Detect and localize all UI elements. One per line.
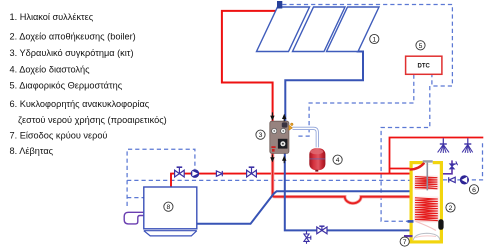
tank faint coil tail <box>416 222 436 231</box>
svg-text:6. Κυκλοφορητής ανακυκλοφορίας: 6. Κυκλοφορητής ανακυκλοφορίας <box>10 99 150 109</box>
flow arrow up below kit <box>282 156 286 164</box>
wire: dashed long horizontal to tank <box>127 179 409 181</box>
pipe: blue cold water line kit side to tank <box>285 153 414 230</box>
svg-text:3. Υδραυλικό συγκρότημα (κιτ): 3. Υδραυλικό συγκρότημα (κιτ) <box>10 48 134 58</box>
legend text <box>10 12 167 156</box>
boiler flue hook <box>124 212 143 224</box>
pipe: red hot water riser and shower line <box>390 138 484 175</box>
pipe: blue boiler return tank to boiler <box>197 191 414 224</box>
wire: dashed sensor wire collector to DTC <box>282 5 452 87</box>
svg-text:5. Διαφορικός Θερμοστάτης: 5. Διαφορικός Θερμοστάτης <box>10 81 123 91</box>
pump P1 boiler circulator <box>191 169 200 178</box>
collector temperature sensor <box>277 1 282 9</box>
pipe: red hot outlet stub into tank <box>390 168 413 170</box>
solar collector panel 2 <box>293 7 346 52</box>
pipe: red boiler supply to tank <box>171 174 415 187</box>
solar collector panel 1 <box>257 7 310 52</box>
wire: dashed recirculation line right of tank <box>443 141 483 180</box>
shower head 1 <box>438 138 449 153</box>
tank bottom inlet stub <box>404 235 413 237</box>
tank sensor stub <box>408 220 414 223</box>
expansion vessel C4 <box>309 148 325 171</box>
node 4 label <box>333 155 342 164</box>
tank upper coil backdrop <box>414 175 438 190</box>
svg-text:4. Δοχείο διαστολής: 4. Δοχείο διαστολής <box>10 64 91 74</box>
tank U2 body <box>410 161 444 244</box>
node 1 label <box>370 34 379 43</box>
flow arrow down into kit top <box>270 112 274 120</box>
svg-text:7: 7 <box>403 239 407 246</box>
hydraulic kit U3 body <box>270 121 289 153</box>
valve V4 gate valve on cold water line <box>317 226 327 234</box>
valve V1 gate valve on boiler supply <box>175 167 185 177</box>
svg-text:1. Ηλιακοί συλλέκτες: 1. Ηλιακοί συλλέκτες <box>10 12 94 22</box>
valve V3 gate valve on boiler supply <box>247 167 257 177</box>
svg-text:8. Λέβητας: 8. Λέβητας <box>10 146 54 156</box>
svg-text:2. Δοχείο αποθήκευσης (boiler): 2. Δοχείο αποθήκευσης (boiler) <box>10 31 136 41</box>
valve V5 drain valve below cold line <box>304 230 311 243</box>
wire: dashed rect left loop to boiler and pump <box>127 149 195 206</box>
tank upper coil <box>415 177 437 189</box>
tank dip tube hot outlet <box>410 163 425 170</box>
tank bottom dome <box>413 233 440 240</box>
node 3 label <box>256 130 265 139</box>
svg-text:1: 1 <box>372 37 376 44</box>
pump P2 recirculation pump 6 <box>460 175 469 184</box>
tank electric element <box>438 219 443 230</box>
tank lower coil <box>415 198 438 221</box>
tank top fitting <box>423 160 433 190</box>
shower head 2 <box>462 138 473 153</box>
node 2 label <box>446 203 455 212</box>
pipe: safety pipe kit to expansion vessel <box>293 128 318 147</box>
svg-text:5: 5 <box>419 43 423 50</box>
pipe: red solar supply collector to kit <box>222 11 277 122</box>
pipe: blue solar return kit to collector <box>285 52 363 122</box>
svg-text:8: 8 <box>167 204 171 211</box>
svg-text:ζεστού νερού χρήσης (προαιρετι: ζεστού νερού χρήσης (προαιρετικός) <box>18 115 167 125</box>
node 5 label <box>416 41 425 50</box>
node 8 label <box>164 202 173 211</box>
flow arrow down below kit <box>270 155 274 163</box>
svg-text:3: 3 <box>259 132 263 139</box>
flow arrow up out of kit top <box>282 114 286 122</box>
svg-text:7. Είσοδος κρύου νερού: 7. Είσοδος κρύου νερού <box>10 131 108 141</box>
svg-text:4: 4 <box>336 157 340 164</box>
wire: dashed DTC to kit pump <box>297 75 414 137</box>
node 7 label <box>400 237 409 246</box>
pipe: purple hot tap riser on tank right <box>443 160 452 173</box>
solar collector panel 3 <box>327 7 380 52</box>
pipe: red solar feed kit to tank coil <box>273 153 417 203</box>
boiler U8 body <box>144 187 197 236</box>
tank lower coil backdrop <box>414 196 439 222</box>
svg-text:6: 6 <box>472 187 476 194</box>
node 6 label <box>469 185 478 194</box>
valve V7 check valve on recirculation <box>449 177 456 182</box>
kit safety valve <box>289 123 293 130</box>
svg-text:DTC: DTC <box>418 64 431 70</box>
svg-text:2: 2 <box>449 205 453 212</box>
valve V6 on hot tap riser <box>450 161 458 169</box>
valve V2 check valve on boiler supply <box>216 171 222 176</box>
wire: dashed DTC to tank lower sensor <box>381 86 430 221</box>
DTC controller U5 <box>406 56 442 74</box>
